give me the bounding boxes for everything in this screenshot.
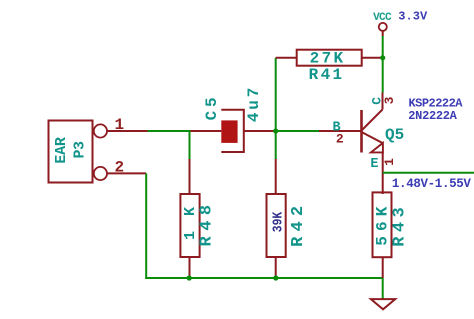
resistor R41 body	[297, 50, 362, 66]
capacitor C5 plate bracket	[221, 110, 244, 152]
connector P3 body	[49, 121, 93, 183]
svg-text:39K: 39K	[270, 211, 286, 232]
svg-text:R42: R42	[289, 206, 308, 247]
junction node R48/rail	[187, 275, 192, 280]
vcc pin stub	[382, 31, 384, 36]
transistor Q5 emitter arrow	[371, 143, 383, 153]
junction node A	[273, 128, 278, 133]
junction node R42/rail	[273, 275, 278, 280]
svg-text:3.3V: 3.3V	[398, 10, 428, 24]
resistor R48 pin bottom	[189, 257, 191, 278]
svg-text:VCC: VCC	[373, 12, 392, 24]
svg-text:4u7: 4u7	[245, 88, 263, 123]
svg-text:P3: P3	[72, 141, 89, 159]
transistor Q5 collector pin	[382, 93, 384, 110]
transistor Q5 emitter pin	[382, 152, 384, 194]
pin line P3-2	[107, 172, 146, 174]
svg-text:1.48V-1.55V: 1.48V-1.55V	[392, 177, 471, 191]
capacitor C5 pin right	[244, 130, 276, 132]
resistor R48 pin top	[189, 159, 191, 194]
wire down to R42	[275, 131, 277, 159]
svg-text:Q5: Q5	[385, 126, 404, 144]
resistor R42 pin bottom	[275, 257, 277, 278]
capacitor C5 pin left	[191, 130, 222, 132]
svg-text:3: 3	[382, 96, 397, 104]
wire down to R48	[189, 131, 191, 159]
resistor R42 body	[267, 194, 286, 257]
pin R41 right	[362, 57, 383, 59]
svg-text:2N2222A: 2N2222A	[408, 109, 457, 123]
ground symbol	[371, 299, 395, 309]
pin circle 2	[94, 167, 107, 180]
resistor R43 pin bottom	[382, 257, 384, 278]
bottom rail wire	[145, 277, 383, 279]
wire pin1 to junction	[148, 130, 191, 132]
wire vcc down	[382, 36, 384, 93]
transistor Q5 base pin	[319, 130, 361, 132]
svg-text:56K: 56K	[373, 206, 391, 245]
vcc symbol circle	[379, 23, 387, 31]
svg-text:R43: R43	[391, 207, 410, 247]
pin circle 1	[94, 124, 107, 137]
wire junction A up to R41	[275, 58, 277, 131]
pin R41 left	[276, 57, 297, 59]
capacitor C5 plate filled	[221, 120, 237, 142]
wire R43 to ground	[382, 278, 384, 299]
resistor R42 pin top	[275, 159, 277, 194]
svg-text:E: E	[370, 157, 378, 172]
transistor Q5 emitter diagonal	[362, 132, 383, 143]
resistor R43 body	[373, 192, 392, 257]
wire emitter node right	[383, 172, 474, 174]
svg-text:R48: R48	[198, 205, 217, 247]
svg-text:2: 2	[336, 131, 344, 146]
pin line P3-1	[107, 130, 148, 132]
svg-text:27K: 27K	[310, 49, 344, 67]
transistor Q5 collector diagonal	[362, 110, 383, 131]
wire junction A right to base	[276, 130, 319, 132]
svg-text:1: 1	[382, 158, 397, 166]
svg-text:R41: R41	[309, 66, 343, 84]
resistor R48 body	[180, 194, 199, 257]
transistor Q5 base bar	[360, 110, 363, 153]
svg-text:EAR: EAR	[53, 137, 70, 164]
wire pin2 down	[145, 173, 147, 279]
junction node VCC/R41	[380, 55, 385, 60]
